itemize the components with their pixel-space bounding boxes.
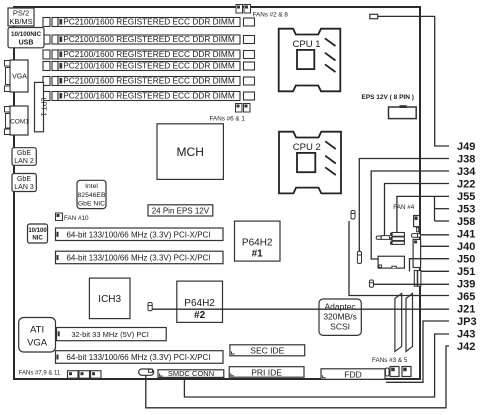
svg-text:LAN 3: LAN 3	[14, 184, 34, 191]
svg-text:FANs #2 & 8: FANs #2 & 8	[253, 12, 289, 19]
svg-text:LPT 1: LPT 1	[40, 98, 47, 117]
svg-text:SCSI: SCSI	[330, 322, 350, 332]
svg-text:P64H2: P64H2	[242, 238, 273, 249]
svg-text:#2: #2	[194, 310, 206, 321]
svg-text:J51: J51	[457, 266, 475, 278]
svg-text:64-bit 133/100/66 MHz (3.3V) P: 64-bit 133/100/66 MHz (3.3V) PCI-X/PCI	[66, 230, 210, 239]
svg-text:J49: J49	[457, 141, 475, 153]
svg-text:J42: J42	[457, 341, 475, 353]
svg-text:CPU 2: CPU 2	[293, 142, 321, 153]
svg-text:J39: J39	[457, 278, 475, 290]
svg-text:J53: J53	[457, 203, 475, 215]
svg-text:FANs #7,9 & 11: FANs #7,9 & 11	[19, 370, 61, 376]
svg-text:64-bit 133/100/66 MHz (3.3V) P: 64-bit 133/100/66 MHz (3.3V) PCI-X/PCI	[66, 353, 210, 362]
svg-text:SEC IDE: SEC IDE	[250, 345, 284, 355]
svg-text:J21: J21	[457, 303, 475, 315]
svg-text:VGA: VGA	[27, 338, 48, 349]
svg-text:JP3: JP3	[457, 316, 477, 328]
svg-text:ICH3: ICH3	[98, 294, 121, 305]
svg-text:ATI: ATI	[30, 325, 44, 336]
svg-text:GbE: GbE	[17, 150, 31, 157]
svg-text:J38: J38	[457, 153, 475, 165]
svg-text:Adaptec: Adaptec	[324, 302, 356, 312]
svg-text:PC2100/1600 REGISTERED ECC DDR: PC2100/1600 REGISTERED ECC DDR DIMM	[63, 34, 235, 44]
svg-text:PC2100/1600 REGISTERED ECC DDR: PC2100/1600 REGISTERED ECC DDR DIMM	[63, 61, 235, 71]
svg-text:CPU 1: CPU 1	[293, 39, 321, 50]
svg-text:Intel: Intel	[85, 183, 98, 190]
svg-text:J43: J43	[457, 328, 475, 340]
svg-text:PRI IDE: PRI IDE	[251, 367, 282, 377]
svg-text:J34: J34	[457, 166, 476, 178]
svg-text:320MB/s: 320MB/s	[323, 312, 357, 322]
svg-text:PC2100/1600 REGISTERED ECC DDR: PC2100/1600 REGISTERED ECC DDR DIMM	[63, 49, 235, 59]
svg-text:VGA: VGA	[12, 74, 27, 81]
svg-text:FANs #3 & 5: FANs #3 & 5	[372, 357, 408, 364]
svg-text:J50: J50	[457, 253, 475, 265]
svg-text:EPS 12V ( 8 PIN ): EPS 12V ( 8 PIN )	[362, 94, 414, 101]
svg-text:J58: J58	[457, 216, 475, 228]
svg-text:LAN 2: LAN 2	[14, 158, 34, 165]
svg-text:J40: J40	[457, 241, 475, 253]
svg-text:P64H2: P64H2	[184, 298, 215, 309]
svg-text:FDD: FDD	[344, 369, 361, 379]
svg-text:32-bit 33 MHz (5V) PCI: 32-bit 33 MHz (5V) PCI	[71, 330, 149, 339]
svg-text:PC2100/1600 REGISTERED ECC DDR: PC2100/1600 REGISTERED ECC DDR DIMM	[63, 17, 235, 27]
svg-text:10/100: 10/100	[28, 228, 47, 234]
svg-text:GbE: GbE	[17, 176, 31, 183]
svg-text:24 Pin EPS 12V: 24 Pin EPS 12V	[152, 206, 210, 215]
svg-text:J41: J41	[457, 228, 475, 240]
svg-text:KB/MS: KB/MS	[9, 17, 32, 26]
svg-text:USB: USB	[19, 40, 34, 47]
svg-text:PC2100/1600 REGISTERED ECC DDR: PC2100/1600 REGISTERED ECC DDR DIMM	[63, 76, 235, 86]
svg-text:FAN #10: FAN #10	[64, 215, 89, 222]
svg-text:J55: J55	[457, 191, 475, 203]
svg-text:J22: J22	[457, 178, 475, 190]
svg-text:MCH: MCH	[177, 145, 204, 159]
svg-text:SMDC CONN: SMDC CONN	[168, 369, 214, 378]
svg-text:COM1: COM1	[10, 119, 29, 126]
svg-text:PC2100/1600 REGISTERED ECC DDR: PC2100/1600 REGISTERED ECC DDR DIMM	[63, 91, 235, 101]
svg-text:10/100NIC: 10/100NIC	[11, 31, 42, 38]
svg-text:82546EB: 82546EB	[78, 192, 106, 199]
svg-text:FANs #6 & 1: FANs #6 & 1	[210, 116, 246, 123]
svg-text:NIC: NIC	[32, 236, 43, 242]
svg-text:#1: #1	[252, 249, 264, 260]
svg-text:64-bit 133/100/66 MHz (3.3V) P: 64-bit 133/100/66 MHz (3.3V) PCI-X/PCI	[66, 253, 210, 262]
svg-text:J65: J65	[457, 291, 475, 303]
svg-text:GbE NIC: GbE NIC	[78, 201, 105, 208]
